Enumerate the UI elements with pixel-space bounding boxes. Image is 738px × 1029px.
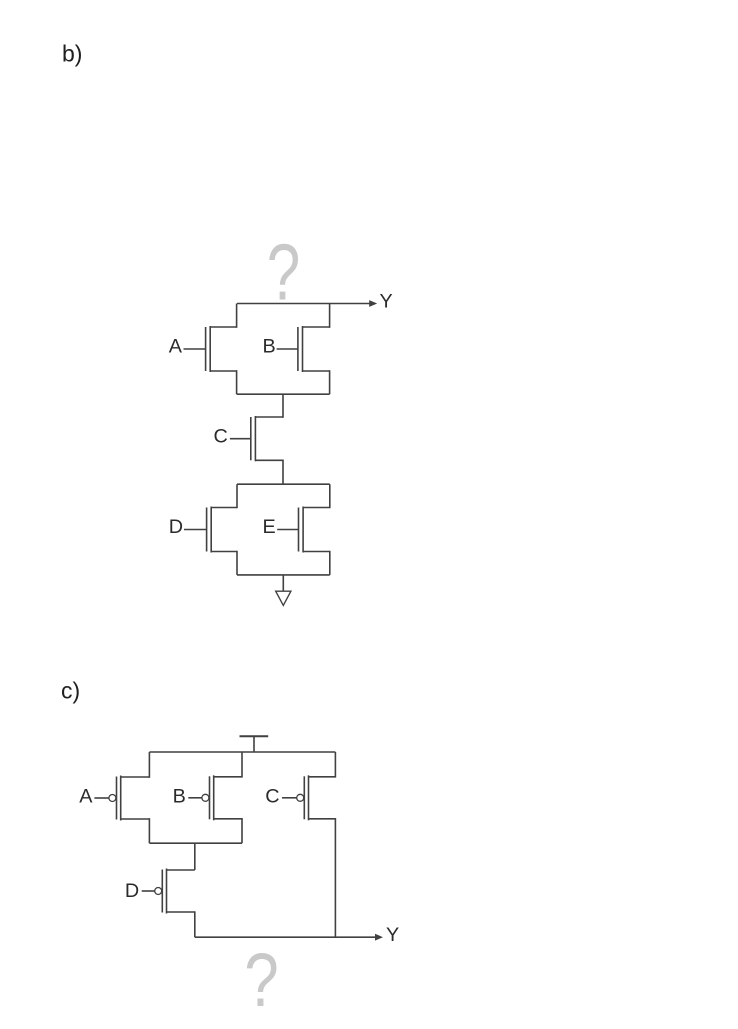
svg-text:A: A bbox=[79, 786, 93, 808]
svg-text:D: D bbox=[169, 516, 183, 538]
svg-text:A: A bbox=[169, 336, 183, 358]
wire: B source down to node N1 bbox=[329, 370, 331, 394]
wire: D drain up to node N2 bbox=[236, 484, 238, 508]
wire: node P1 down to D drain (c) bbox=[194, 843, 196, 871]
wire: output node rail to Y with arrow (b) bbox=[237, 300, 377, 307]
svg-text:?: ? bbox=[244, 938, 279, 1023]
pmos transistor D bbox=[142, 869, 195, 914]
svg-text:C: C bbox=[214, 426, 228, 448]
ground symbol bbox=[276, 591, 291, 605]
nmos transistor D bbox=[184, 507, 237, 553]
wire: C(c) drain up to VDD rail bbox=[334, 752, 336, 778]
nmos transistor C bbox=[230, 416, 283, 461]
wire: E source down to ground rail bbox=[329, 551, 331, 575]
pmos transistor A bbox=[94, 776, 149, 821]
pmos transistor C bbox=[282, 775, 335, 820]
nmos transistor A bbox=[184, 326, 237, 372]
wire: C(c) source down to output Y rail bbox=[334, 818, 336, 937]
wire: D(c) source down to output Y rail bbox=[194, 911, 196, 937]
wire: B(c) source down to node P1 bbox=[241, 818, 243, 843]
svg-text:Y: Y bbox=[380, 290, 393, 312]
wire: A(c) drain up to VDD rail bbox=[148, 752, 150, 778]
svg-text:C: C bbox=[265, 786, 279, 808]
VDD power symbol bbox=[240, 736, 269, 752]
svg-text:c): c) bbox=[61, 678, 80, 704]
wire: A source down to node N1 bbox=[236, 370, 238, 394]
wire: B(c) drain up to VDD rail bbox=[241, 752, 243, 778]
svg-text:D: D bbox=[125, 880, 139, 902]
wire: A(c) source down to node P1 bbox=[148, 818, 150, 843]
VDD rail (c) bbox=[149, 751, 335, 753]
wire: output rail to Y with arrow (c) bbox=[195, 934, 383, 941]
wire: node N1 down to C drain bbox=[282, 394, 284, 418]
nmos transistor E bbox=[277, 507, 330, 553]
svg-text:E: E bbox=[263, 516, 276, 538]
node N2 rail (D/E drains) bbox=[237, 483, 330, 485]
wire: C source down to node N2 bbox=[282, 460, 284, 485]
svg-text:b): b) bbox=[62, 41, 82, 67]
node P1 rail (A/B sources, c) bbox=[149, 842, 242, 844]
wire: E drain up to node N2 bbox=[329, 484, 331, 508]
ground rail (D/E sources) bbox=[237, 574, 330, 576]
wire: B drain up to output rail bbox=[329, 304, 331, 328]
svg-text:B: B bbox=[263, 336, 276, 358]
node N1 rail (A/B sources) bbox=[237, 393, 330, 395]
wire: D source down to ground rail bbox=[236, 551, 238, 575]
wire: ground rail to ground symbol bbox=[282, 575, 284, 591]
pmos transistor B bbox=[188, 775, 242, 820]
svg-text:Y: Y bbox=[386, 924, 399, 946]
wire: A drain up to output rail bbox=[236, 304, 238, 328]
svg-text:B: B bbox=[173, 786, 186, 808]
nmos transistor B bbox=[277, 326, 330, 372]
